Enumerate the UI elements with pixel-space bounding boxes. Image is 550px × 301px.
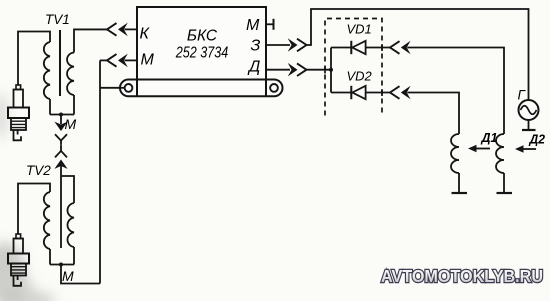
connector socket: K fork (107, 23, 117, 36)
wire: TV2 M to ground bus (61, 265, 100, 284)
connector socket: M fork (107, 54, 117, 67)
bracket hole left (125, 84, 133, 92)
wire: TV2 secondary bottom (49, 249, 51, 265)
inductor D1 sensor coil (451, 134, 459, 173)
svg-text:БКС: БКС (187, 28, 218, 45)
wire: VD1 branch left (331, 47, 351, 49)
box side edges over bracket (137, 80, 266, 97)
wire: VD2 branch left (331, 92, 351, 94)
connector socket: fork down (55, 134, 67, 157)
diode VD2 (351, 86, 365, 99)
arrow to D2 (522, 148, 536, 150)
connector socket: VD1 fork (390, 41, 400, 54)
wire: VD2 to connector (366, 92, 390, 94)
ground D2 (497, 192, 513, 194)
connector pin: D arrow (288, 63, 298, 77)
wire: Z riser and top bus to generator (307, 9, 529, 100)
svg-text:VD1: VD1 (347, 22, 372, 37)
connector pin: VD2 arrow (401, 86, 411, 100)
wire: M bus to bracket ear (100, 87, 126, 89)
wire: spark plug 2 to TV2 secondary top (18, 184, 50, 235)
wire: generator bottom lead (528, 120, 530, 130)
svg-text:TV1: TV1 (45, 12, 70, 27)
wire: TV2 primary bottom (73, 247, 75, 265)
diode VD1 (351, 41, 365, 54)
terminal M stub (266, 19, 290, 45)
transformer TV2 secondary winding (44, 192, 50, 249)
dashed enclosure (325, 19, 382, 116)
wire: K line from TV1 to connector (74, 28, 107, 30)
wire: D line into dashed unit (307, 69, 332, 71)
svg-text:К: К (140, 26, 151, 43)
svg-text:AVTOMOTOKLYB.RU: AVTOMOTOKLYB.RU (381, 266, 543, 286)
svg-text:З: З (251, 38, 261, 55)
wire: bracket ear overlay (119, 87, 126, 89)
connector pin: K arrow (118, 23, 128, 37)
wire: M line stub from bus to connector (100, 59, 107, 61)
dash crossing marks (325, 44, 382, 96)
connector pin: TV2 arrow up (54, 160, 67, 169)
mounting bracket (120, 80, 283, 97)
inductor D2 sensor coil (496, 134, 504, 173)
wire: node vertical (330, 48, 332, 93)
connector socket: VD2 fork (390, 86, 400, 99)
wire: VD1 connector to D2 sensor (407, 48, 504, 135)
node: TV2 M junction (59, 263, 63, 267)
scan smudge bottom-left (0, 92, 55, 301)
spark plug FV1 (8, 85, 29, 140)
wire: TV2 bottom link (50, 264, 74, 266)
svg-text:М: М (246, 17, 260, 34)
svg-text:VD2: VD2 (347, 69, 373, 84)
node: D split (329, 68, 333, 72)
ground D1 (452, 192, 468, 194)
svg-text:Д: Д (247, 59, 260, 76)
node: TV1 M junction (59, 113, 63, 117)
wire: TV1 secondary bottom (49, 99, 51, 115)
wire: VD1 to connector (366, 47, 390, 49)
svg-text:TV2: TV2 (26, 163, 51, 178)
svg-text:М: М (65, 116, 77, 132)
svg-text:252 3734: 252 3734 (175, 45, 229, 62)
connector pin: VD1 arrow (401, 41, 411, 55)
connector socket: fork up (60, 145, 62, 151)
transformer TV1 core (59, 30, 61, 96)
svg-text:Д1: Д1 (481, 130, 498, 145)
wire: spark plug 1 to TV1 secondary top (18, 32, 50, 86)
wire: D line from box (266, 69, 290, 71)
transformer TV1 primary winding (67, 53, 74, 95)
connector pin: M arrow (118, 54, 128, 68)
svg-text:М: М (62, 268, 74, 284)
wire: TV1 M lead down (60, 115, 62, 125)
bracket hole right (270, 84, 278, 92)
wire: D2 to ground (503, 173, 505, 193)
wire: TV1 bottom link M node (50, 114, 74, 116)
wire: jog to TV2 primary top (61, 176, 74, 203)
wire: TV1 primary bottom (73, 95, 75, 115)
wire: M arrow shaft (125, 59, 138, 61)
ground generator (522, 129, 536, 131)
wire: VD2 connector to D1 sensor (407, 93, 459, 135)
connector socket: Z fork (297, 39, 307, 52)
svg-text:М: М (141, 52, 155, 69)
wire: Z line from box (266, 44, 290, 46)
connector socket: D fork (297, 63, 307, 76)
transformer TV2 primary winding (67, 203, 74, 247)
spark plug FV2 (8, 234, 29, 286)
transformer TV1 secondary winding (44, 42, 50, 99)
box U1 BKS 252 3734 (137, 7, 266, 80)
connector pin: Z arrow (288, 38, 298, 52)
wire: M bus long vertical (99, 60, 101, 283)
generator G (519, 100, 539, 120)
wire: TV2 lead / core merged vertical (60, 164, 62, 248)
svg-text:Д2: Д2 (529, 132, 546, 147)
wire: K arrow shaft (125, 28, 138, 30)
arrow to D1 (475, 148, 490, 150)
connector pin: TV1 M arrow down (54, 122, 67, 131)
wire: TV1 primary top to K connector (74, 29, 107, 52)
generator sine (521, 106, 537, 115)
wire: D1 to ground (458, 173, 460, 193)
